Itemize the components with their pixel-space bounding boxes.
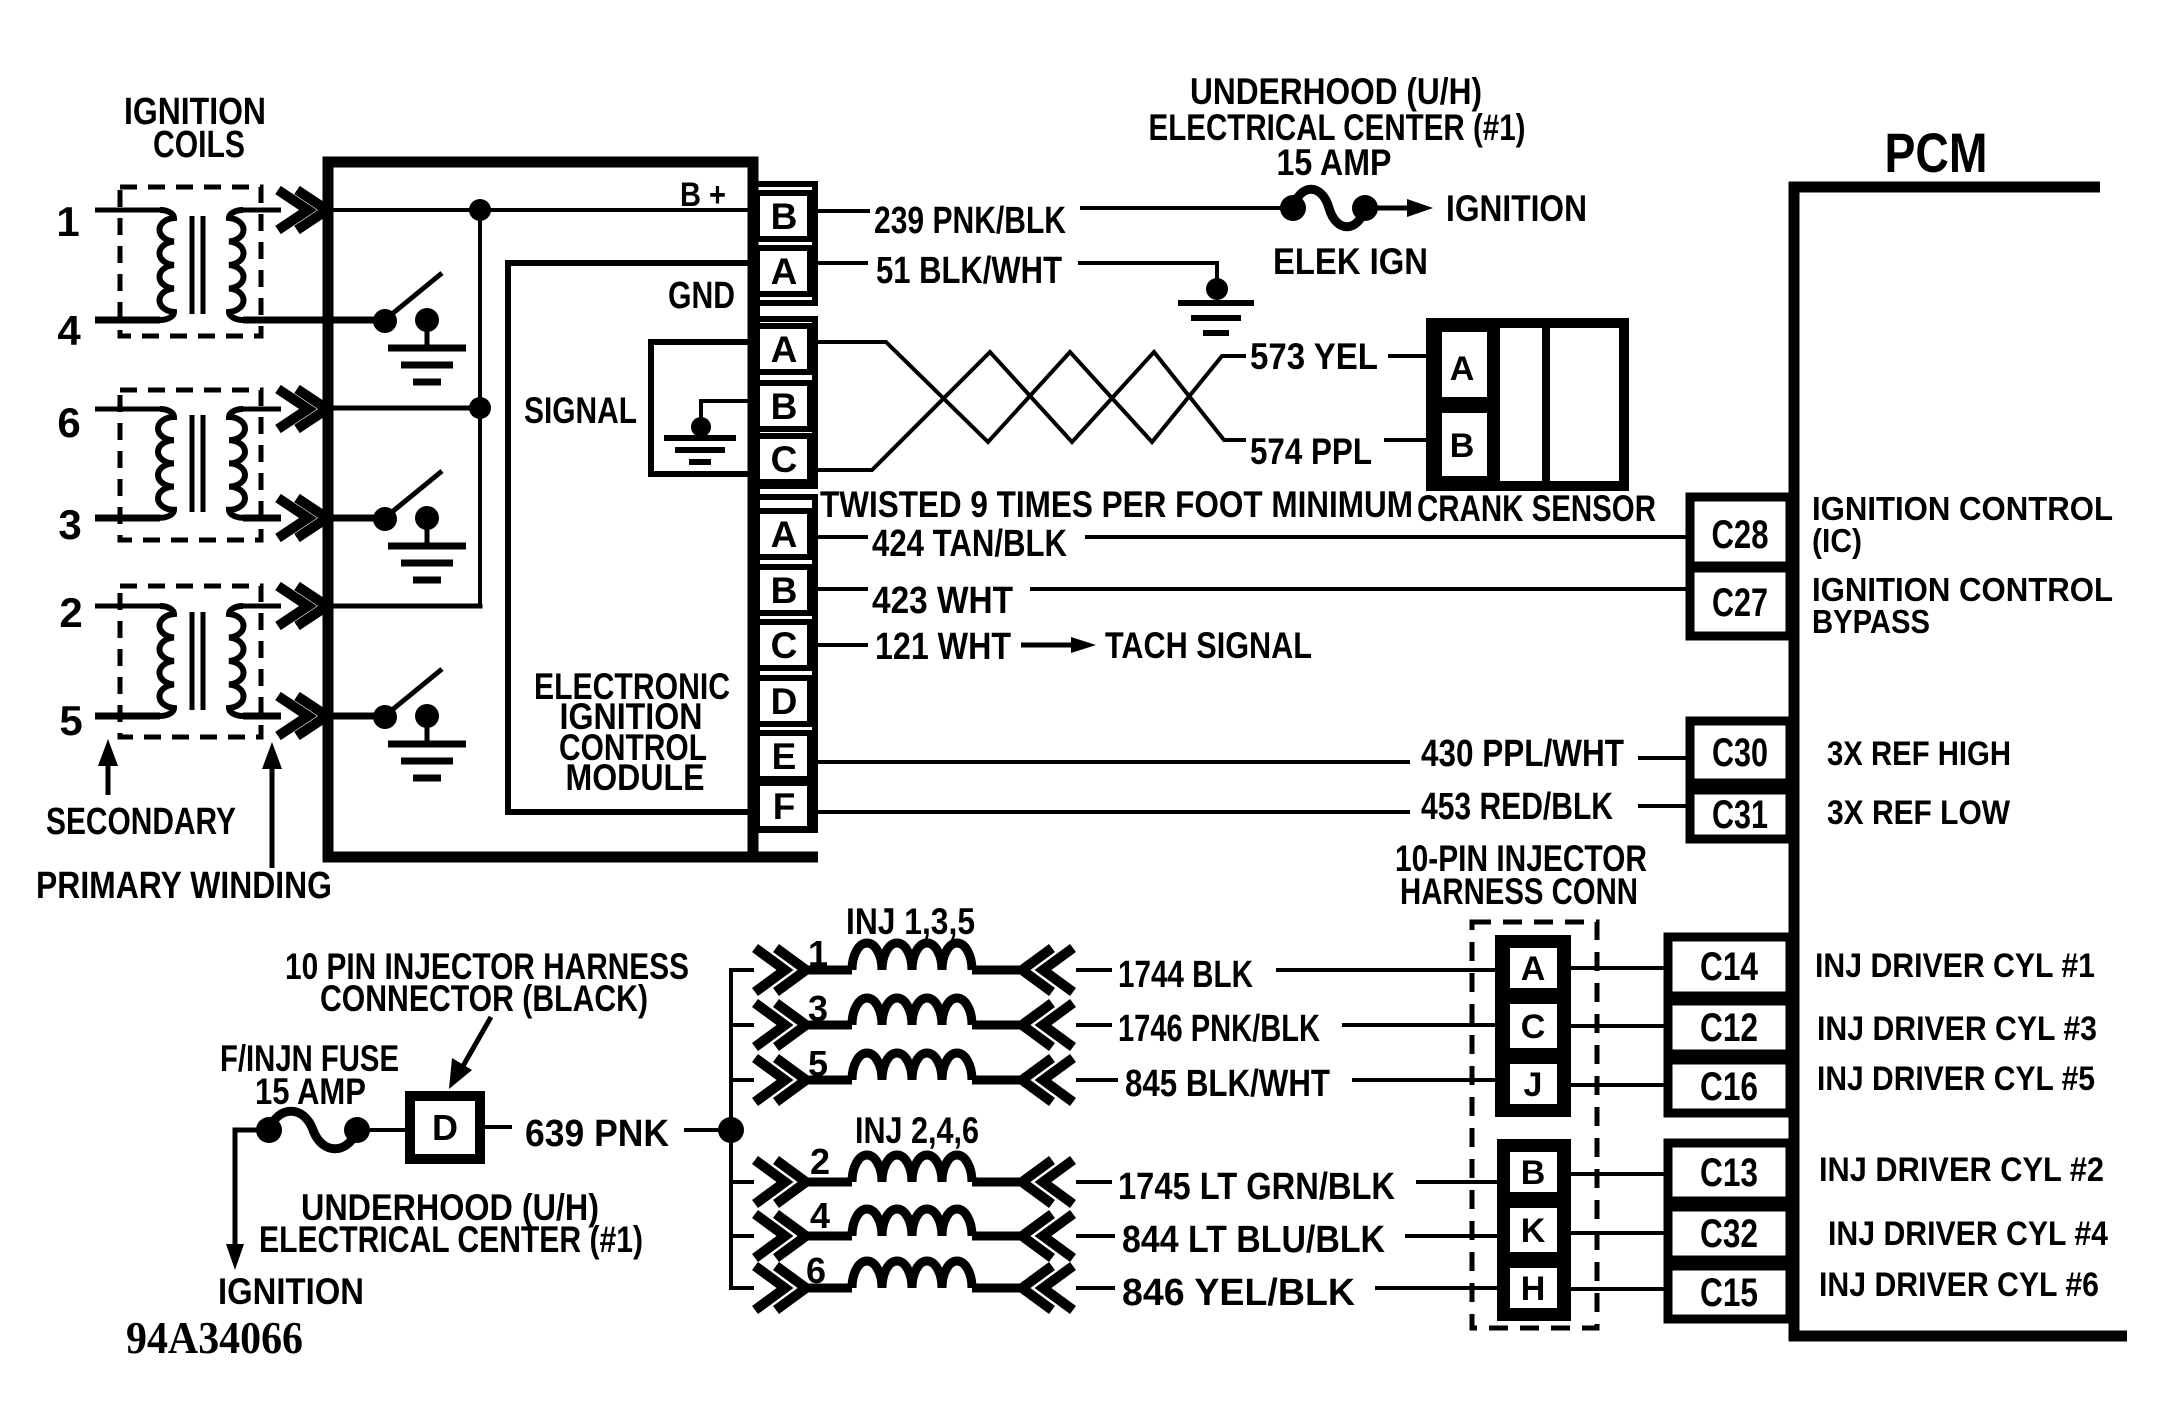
svg-text:INJ DRIVER CYL #4: INJ DRIVER CYL #4 xyxy=(1828,1215,2108,1253)
svg-text:MODULE: MODULE xyxy=(566,757,705,798)
transistor switch coil 4 output with ground xyxy=(333,317,375,324)
svg-text:6: 6 xyxy=(57,399,80,446)
PCM terminal C30 xyxy=(1690,721,1790,783)
svg-text:J: J xyxy=(1524,1066,1543,1104)
module connector group A-F shell xyxy=(753,497,815,830)
wire coil 2 primary feed xyxy=(333,604,480,606)
node 639 PNK junction xyxy=(718,1117,744,1143)
svg-text:INJ 1,3,5: INJ 1,3,5 xyxy=(846,901,975,942)
svg-text:COILS: COILS xyxy=(153,124,245,166)
signal ground box xyxy=(651,342,755,474)
pin D output xyxy=(757,678,810,724)
harness pin K xyxy=(1506,1204,1561,1256)
wire B+ bus xyxy=(330,208,757,212)
svg-text:B: B xyxy=(1450,427,1475,465)
svg-text:15 AMP: 15 AMP xyxy=(255,1071,366,1112)
svg-text:424 TAN/BLK: 424 TAN/BLK xyxy=(872,523,1067,565)
PCM terminal C16 xyxy=(1668,1060,1790,1113)
svg-text:2: 2 xyxy=(810,1141,830,1182)
ignition coil T3 cylinders 2-5 xyxy=(120,586,261,737)
ground signal internal xyxy=(691,417,711,437)
PCM terminal C13 xyxy=(1668,1143,1790,1201)
PCM terminal C27 xyxy=(1690,568,1790,636)
wire harness J to C16 xyxy=(1561,1083,1668,1087)
svg-text:A: A xyxy=(1450,350,1475,388)
svg-text:1744 BLK: 1744 BLK xyxy=(1118,954,1253,996)
harness pin J xyxy=(1506,1060,1561,1108)
wire 121 WHT tach signal xyxy=(813,643,868,647)
svg-text:TACH SIGNAL: TACH SIGNAL xyxy=(1105,625,1312,666)
injector 3 coil xyxy=(755,1003,806,1047)
svg-text:C30: C30 xyxy=(1712,731,1768,775)
PCM terminal C12 xyxy=(1668,1001,1790,1054)
wire 1746 PNK/BLK xyxy=(1076,1023,1112,1027)
svg-text:5: 5 xyxy=(59,697,82,744)
wire harness K to C32 xyxy=(1561,1231,1668,1235)
PCM terminal C14 xyxy=(1668,937,1790,996)
svg-text:E: E xyxy=(772,736,797,777)
svg-text:C32: C32 xyxy=(1700,1212,1758,1256)
svg-text:121 WHT: 121 WHT xyxy=(875,626,1011,668)
wire harness C to C12 xyxy=(1561,1024,1668,1028)
arrow to connector D xyxy=(455,1017,491,1080)
harness connector group B/K/H shell xyxy=(1501,1143,1567,1317)
svg-text:PRIMARY WINDING: PRIMARY WINDING xyxy=(36,865,332,907)
svg-text:453 RED/BLK: 453 RED/BLK xyxy=(1421,786,1613,828)
svg-text:INJ DRIVER CYL #6: INJ DRIVER CYL #6 xyxy=(1819,1266,2099,1304)
svg-text:D: D xyxy=(432,1107,458,1148)
crank sensor pin A xyxy=(1438,328,1491,401)
svg-text:ELEK IGN: ELEK IGN xyxy=(1273,241,1428,282)
svg-text:C28: C28 xyxy=(1712,513,1769,557)
svg-text:573 YEL: 573 YEL xyxy=(1250,336,1378,377)
svg-text:574 PPL: 574 PPL xyxy=(1250,431,1372,472)
svg-text:INJ DRIVER CYL #3: INJ DRIVER CYL #3 xyxy=(1817,1010,2097,1048)
svg-text:A: A xyxy=(771,514,798,555)
svg-text:846 YEL/BLK: 846 YEL/BLK xyxy=(1122,1272,1356,1314)
10-pin injector harness connector dashed outline xyxy=(1472,922,1597,1328)
ignition coil T1 cylinders 1-4 xyxy=(120,187,261,336)
node B+ junction coil 6 xyxy=(469,397,491,419)
svg-text:423 WHT: 423 WHT xyxy=(872,580,1013,622)
svg-text:C16: C16 xyxy=(1700,1065,1758,1109)
pin A signal xyxy=(757,326,810,372)
PCM terminal C15 xyxy=(1668,1266,1790,1319)
svg-text:A: A xyxy=(771,251,798,292)
injector 5 coil xyxy=(755,1058,806,1102)
svg-text:51 BLK/WHT: 51 BLK/WHT xyxy=(876,250,1062,292)
fuse F/INJN 15A xyxy=(256,1117,282,1143)
svg-text:SIGNAL: SIGNAL xyxy=(524,390,637,431)
label PRIMARY WINDING with arrow xyxy=(270,765,275,868)
wire 1745 LT GRN/BLK xyxy=(1076,1180,1112,1184)
svg-text:4: 4 xyxy=(810,1195,830,1236)
fuse IGN 15A xyxy=(1280,195,1306,221)
wire 239 PNK/BLK from pin B xyxy=(813,209,870,213)
wire 424 TAN/BLK ignition control xyxy=(813,535,868,539)
crank sensor connector outline xyxy=(1431,323,1624,486)
svg-text:C13: C13 xyxy=(1700,1151,1758,1195)
module connector group B/A shell xyxy=(753,184,815,303)
svg-text:H: H xyxy=(1521,1270,1546,1308)
svg-text:845 BLK/WHT: 845 BLK/WHT xyxy=(1125,1063,1330,1105)
svg-text:94A34066: 94A34066 xyxy=(126,1312,303,1363)
harness pin B xyxy=(1506,1148,1561,1196)
svg-text:844 LT BLU/BLK: 844 LT BLU/BLK xyxy=(1122,1219,1385,1261)
svg-text:CONNECTOR (BLACK): CONNECTOR (BLACK) xyxy=(320,978,648,1019)
svg-text:INJ 2,4,6: INJ 2,4,6 xyxy=(855,1110,979,1151)
harness pin C xyxy=(1506,1000,1561,1052)
pin A of module power connector xyxy=(757,248,810,294)
wire 573 YEL twisted pair from pin A xyxy=(813,342,1246,442)
svg-text:INJ DRIVER CYL #2: INJ DRIVER CYL #2 xyxy=(1819,1151,2104,1189)
PCM terminal C32 xyxy=(1668,1207,1790,1260)
pin A output xyxy=(757,511,810,557)
svg-text:3X REF LOW: 3X REF LOW xyxy=(1827,794,2011,832)
wire fuse to ignition arrow xyxy=(1365,206,1412,211)
electronic ignition control module outline xyxy=(328,162,753,857)
injector 6 coil xyxy=(755,1266,806,1310)
svg-text:1746 PNK/BLK: 1746 PNK/BLK xyxy=(1118,1008,1320,1050)
wire link 573 to crank sensor pin A xyxy=(1388,354,1436,358)
wire link 574 to crank sensor pin B xyxy=(1384,438,1438,442)
svg-text:239 PNK/BLK: 239 PNK/BLK xyxy=(874,200,1066,242)
injector 2 coil xyxy=(755,1160,806,1204)
connector D terminal xyxy=(410,1096,480,1159)
wire 844 LT BLU/BLK xyxy=(1076,1234,1115,1238)
wire signal pin B to ground xyxy=(701,401,755,418)
svg-text:C: C xyxy=(1521,1008,1546,1046)
wire 845 BLK/WHT xyxy=(1076,1078,1118,1082)
svg-text:B: B xyxy=(771,386,798,427)
harness pin A xyxy=(1506,944,1561,992)
svg-text:UNDERHOOD (U/H): UNDERHOOD (U/H) xyxy=(1190,71,1482,112)
wire 639 PNK xyxy=(480,1125,512,1129)
svg-text:TWISTED 9 TIMES PER FOOT MINIM: TWISTED 9 TIMES PER FOOT MINIMUM xyxy=(820,484,1413,525)
wire harness B to C13 xyxy=(1561,1172,1668,1176)
injector 4 coil xyxy=(755,1214,806,1258)
svg-text:C14: C14 xyxy=(1700,945,1759,989)
node B+ junction coil 1 xyxy=(469,199,491,221)
svg-text:4: 4 xyxy=(57,307,81,354)
PCM terminal C28 xyxy=(1690,497,1790,566)
svg-text:PCM: PCM xyxy=(1885,121,1988,184)
pin E output xyxy=(757,733,810,779)
svg-text:GND: GND xyxy=(668,275,735,317)
svg-text:IGNITION: IGNITION xyxy=(218,1271,364,1312)
wire 574 PPL twisted pair from pin C xyxy=(813,352,1246,470)
svg-text:BYPASS: BYPASS xyxy=(1812,603,1930,640)
svg-text:3X REF HIGH: 3X REF HIGH xyxy=(1827,735,2011,773)
transistor switch coil 5 output with ground xyxy=(333,713,375,720)
pin B signal xyxy=(757,383,810,429)
pin F output xyxy=(757,783,810,829)
transistor switch coil 3 output with ground xyxy=(333,515,377,522)
svg-text:1: 1 xyxy=(56,198,79,245)
svg-text:C: C xyxy=(771,625,798,666)
svg-text:A: A xyxy=(771,329,798,370)
wire 51 BLK/WHT from pin A xyxy=(813,261,868,265)
svg-text:CRANK SENSOR: CRANK SENSOR xyxy=(1417,488,1656,529)
svg-text:639 PNK: 639 PNK xyxy=(525,1113,670,1155)
svg-text:C27: C27 xyxy=(1712,581,1768,625)
svg-text:ELECTRICAL CENTER (#1): ELECTRICAL CENTER (#1) xyxy=(259,1219,643,1260)
label SECONDARY with arrow xyxy=(106,760,111,795)
wire 1744 BLK xyxy=(1076,968,1112,972)
svg-text:430 PPL/WHT: 430 PPL/WHT xyxy=(1421,733,1624,775)
wire harness A to C14 xyxy=(1561,966,1668,970)
svg-text:C: C xyxy=(771,439,798,480)
svg-text:INJ DRIVER CYL #1: INJ DRIVER CYL #1 xyxy=(1815,947,2095,985)
svg-text:B: B xyxy=(771,196,798,237)
svg-text:B: B xyxy=(771,570,798,611)
wire B+ vertical feed xyxy=(478,210,482,606)
wire harness H to C15 xyxy=(1561,1287,1668,1291)
injector 1 coil xyxy=(755,948,806,992)
harness pin H xyxy=(1506,1264,1561,1312)
svg-text:15 AMP: 15 AMP xyxy=(1277,142,1392,183)
svg-text:3: 3 xyxy=(58,501,81,548)
pin C signal xyxy=(757,436,810,482)
pin B of module power connector xyxy=(757,193,810,239)
svg-text:A: A xyxy=(1521,950,1546,988)
svg-text:D: D xyxy=(771,681,798,722)
svg-text:C15: C15 xyxy=(1700,1271,1758,1315)
crank sensor pin B xyxy=(1438,409,1491,480)
svg-text:(IC): (IC) xyxy=(1812,522,1862,559)
svg-text:2: 2 xyxy=(59,589,82,636)
svg-text:HARNESS CONN: HARNESS CONN xyxy=(1400,871,1638,912)
svg-text:F: F xyxy=(773,786,796,827)
svg-text:C12: C12 xyxy=(1700,1006,1758,1050)
svg-text:1745 LT GRN/BLK: 1745 LT GRN/BLK xyxy=(1118,1166,1395,1208)
injector feed bus xyxy=(731,970,754,1130)
wire fuse to connector D xyxy=(370,1128,410,1132)
svg-text:K: K xyxy=(1521,1212,1546,1250)
wire coil 6 primary feed xyxy=(333,406,480,411)
ground ELEK IGN xyxy=(1206,278,1228,300)
pin C output xyxy=(757,622,810,668)
module inner signal boundary xyxy=(508,263,757,812)
PCM terminal C31 xyxy=(1690,790,1790,839)
harness connector group A/C/J shell xyxy=(1499,939,1567,1113)
wire 453 RED/BLK 3x ref low from pin F xyxy=(816,810,1410,814)
svg-text:C31: C31 xyxy=(1712,793,1768,837)
svg-text:SECONDARY: SECONDARY xyxy=(46,801,236,843)
wire ignition feed to fuse xyxy=(235,1130,257,1248)
wire 846 YEL/BLK xyxy=(1076,1286,1115,1290)
svg-text:B: B xyxy=(1521,1154,1546,1192)
module connector group signal A/B/C shell xyxy=(753,319,815,486)
ignition coil T2 cylinders 6-3 xyxy=(120,390,261,540)
wire 430 PPL/WHT 3x ref high from pin E xyxy=(816,760,1410,764)
pin B output xyxy=(757,567,810,613)
wire 423 WHT bypass xyxy=(813,587,868,591)
svg-text:IGNITION: IGNITION xyxy=(1446,188,1587,229)
svg-text:INJ DRIVER CYL #5: INJ DRIVER CYL #5 xyxy=(1817,1060,2095,1098)
